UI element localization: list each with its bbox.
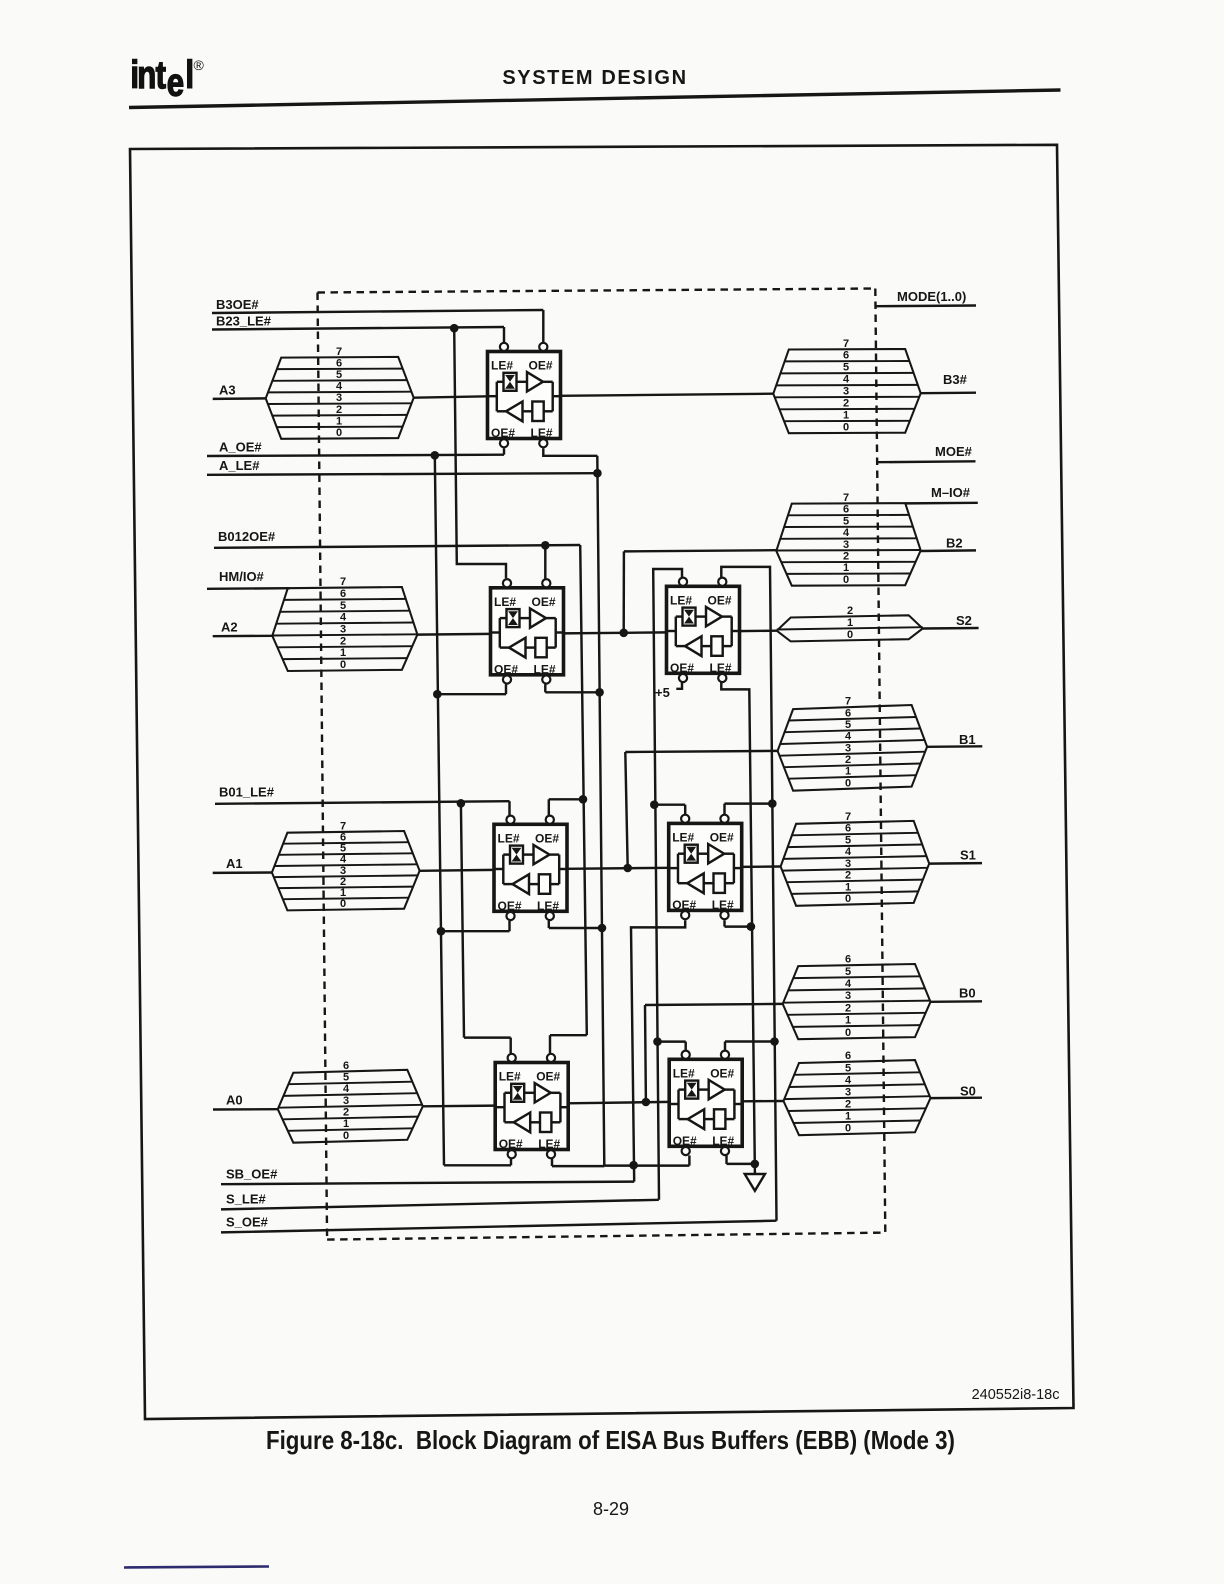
A3 bit line 5 xyxy=(272,379,407,382)
svg-text:6: 6 xyxy=(845,707,851,719)
svg-text:0: 0 xyxy=(340,898,346,910)
bus expander S0 xyxy=(784,1050,931,1135)
wire U1 OE#-bottom riser xyxy=(503,448,505,455)
svg-text:2: 2 xyxy=(340,635,346,647)
svg-text:7: 7 xyxy=(843,492,849,504)
buffer U2 (A2/B2) xyxy=(491,579,564,684)
A1 bit line 6 xyxy=(283,842,408,844)
svg-text:3: 3 xyxy=(343,1095,349,1107)
wire S_LE# to U7 LE#-top xyxy=(658,1040,686,1042)
junction A_LE#/U2 xyxy=(595,688,604,697)
bus expander B0 xyxy=(783,954,931,1039)
wire B012OE# line xyxy=(214,545,580,548)
svg-text:HM/IO#: HM/IO# xyxy=(219,569,265,584)
B2 bit line 6 xyxy=(788,514,909,516)
wire B23_LE# riser to U1 LE# xyxy=(503,327,505,343)
B1 bit line 6 xyxy=(789,717,916,721)
S0 bit line 2 xyxy=(788,1108,926,1111)
wire A2 to U2 xyxy=(417,633,490,636)
wire M-IO# line (bit7 extension) xyxy=(906,502,978,505)
S1 bit line 2 xyxy=(787,880,923,883)
wire B01_LE# vertical net xyxy=(461,803,464,1037)
junction S_LE#/U7 xyxy=(653,1037,662,1046)
wire B3OE# riser to U1 OE# xyxy=(542,310,544,343)
bus expander S2 outline xyxy=(777,615,923,641)
A0 bit line 4 xyxy=(283,1093,417,1096)
svg-text:1: 1 xyxy=(845,1015,851,1027)
svg-text:0: 0 xyxy=(340,659,346,671)
svg-text:4: 4 xyxy=(340,612,347,624)
svg-text:5: 5 xyxy=(343,1072,349,1084)
svg-text:A3: A3 xyxy=(219,383,236,398)
A3 bit line 2 xyxy=(272,414,407,417)
svg-text:0: 0 xyxy=(845,893,851,905)
svg-text:6: 6 xyxy=(845,1050,851,1062)
svg-text:1: 1 xyxy=(845,766,851,778)
wire MOE# line xyxy=(877,460,976,463)
dashed EBB boundary top edge xyxy=(318,289,876,293)
A3 bit line 3 xyxy=(268,402,412,405)
wire A_LE# to U6 LE#-bottom xyxy=(552,1165,604,1167)
junction gnd/U5 xyxy=(747,922,756,931)
dashed EBB boundary bottom edge xyxy=(327,1233,885,1240)
wire B01_LE# riser to U4 LE# xyxy=(508,801,510,815)
svg-text:5: 5 xyxy=(340,600,346,612)
svg-text:A2: A2 xyxy=(221,620,238,635)
wire ground net (U3/U5/U7 LE#-bottom) xyxy=(721,683,755,1175)
svg-text:7: 7 xyxy=(336,346,342,358)
svg-text:7: 7 xyxy=(845,696,851,708)
junction SB_OE#/U7 xyxy=(629,1161,638,1170)
junction A_OE# vertical tap xyxy=(431,451,440,460)
wire U1 to B3 expander xyxy=(560,394,773,396)
svg-text:M–IO#: M–IO# xyxy=(931,485,971,500)
svg-text:1: 1 xyxy=(845,881,851,893)
B3 bit line 3 xyxy=(775,396,920,399)
junction B1 tap xyxy=(623,864,632,873)
svg-text:SB_OE#: SB_OE# xyxy=(226,1167,278,1182)
wire B3 expander to B3# xyxy=(921,392,922,394)
wire S_OE# to U7 OE#-top xyxy=(725,1040,775,1042)
B3 bit line 6 xyxy=(785,360,910,362)
wire S_OE# net (U3/U5/U7 OE#-top) xyxy=(721,567,776,1221)
svg-text:6: 6 xyxy=(336,357,342,369)
A2 bit line 4 xyxy=(276,623,413,624)
wire A2 lead-in xyxy=(213,635,273,638)
A1 bit line 5 xyxy=(279,853,413,855)
B2 bit line 4 xyxy=(780,537,916,540)
svg-text:5: 5 xyxy=(845,719,851,731)
wire U4 to U5 xyxy=(566,868,670,869)
svg-text:1: 1 xyxy=(340,647,346,659)
B1 bit line 5 xyxy=(785,729,921,733)
junction S_OE#/U7 xyxy=(770,1037,779,1046)
svg-text:4: 4 xyxy=(845,846,852,858)
wire B012OE# to U4 OE#-top xyxy=(549,798,583,800)
B3 bit line 5 xyxy=(780,372,913,375)
svg-text:6: 6 xyxy=(340,588,346,600)
S1 bit line 5 xyxy=(788,845,923,848)
A3 bit line 6 xyxy=(277,368,403,371)
wire A1 lead-in xyxy=(213,871,272,874)
S1 bit line 6 xyxy=(792,833,918,836)
wire S_LE# to U5 LE#-top xyxy=(654,803,685,805)
B3 bit line 2 xyxy=(779,408,914,411)
S0 bit line 1 xyxy=(794,1121,921,1124)
wire A_OE# to U6 OE#-bottom xyxy=(444,1164,511,1166)
buffer U3 (B2/S2) xyxy=(667,578,740,683)
svg-text:2: 2 xyxy=(843,551,849,563)
wire A_LE# line xyxy=(207,473,597,475)
wire HM/IO# line xyxy=(207,587,290,590)
svg-text:7: 7 xyxy=(843,338,849,350)
wire U5 to S1 expander xyxy=(741,865,781,868)
A1 bit line 1 xyxy=(283,898,409,900)
bus expander A0 outline xyxy=(278,1070,423,1143)
svg-text:1: 1 xyxy=(843,410,849,422)
svg-text:1: 1 xyxy=(336,415,342,427)
buffer U7 (B0/S0) xyxy=(669,1051,742,1156)
A2 bit line 3 xyxy=(272,634,417,635)
svg-text:7: 7 xyxy=(845,811,851,823)
buffer U1 (A3/B3) xyxy=(488,343,561,448)
svg-text:S1: S1 xyxy=(960,848,976,863)
svg-text:t: t xyxy=(156,54,167,97)
wire SB_OE# line xyxy=(221,1182,634,1185)
svg-text:5: 5 xyxy=(843,515,849,527)
B3 bit line 1 xyxy=(784,420,910,422)
svg-text:4: 4 xyxy=(343,1083,350,1095)
wire U3 to S2 expander xyxy=(738,629,777,632)
junction A_OE#/U4 xyxy=(437,927,446,936)
svg-text:2: 2 xyxy=(843,398,849,410)
bus expander B2 xyxy=(776,492,920,586)
svg-text:0: 0 xyxy=(847,629,853,641)
S1 bit line 4 xyxy=(783,856,926,859)
svg-text:3: 3 xyxy=(845,1086,851,1098)
svg-text:6: 6 xyxy=(845,954,851,966)
svg-text:2: 2 xyxy=(336,404,342,416)
wire MODE line xyxy=(876,304,976,307)
bus expander S2 xyxy=(777,605,923,642)
svg-text:4: 4 xyxy=(843,374,850,386)
svg-text:1: 1 xyxy=(847,617,853,629)
bus expander S1 outline xyxy=(781,821,930,906)
svg-text:S_OE#: S_OE# xyxy=(226,1215,269,1230)
B3 bit line 4 xyxy=(776,384,918,387)
svg-text:SYSTEM DESIGN: SYSTEM DESIGN xyxy=(502,67,687,89)
svg-text:B2: B2 xyxy=(946,536,963,551)
A2 bit line 5 xyxy=(280,611,410,612)
A0 bit line 3 xyxy=(278,1105,423,1108)
svg-text:6: 6 xyxy=(845,823,851,835)
svg-text:0: 0 xyxy=(843,574,849,586)
wire S1 line xyxy=(929,862,982,865)
svg-text:1: 1 xyxy=(343,1118,349,1130)
wire B2 horizontal to expander xyxy=(624,550,776,551)
svg-text:S0: S0 xyxy=(960,1084,976,1099)
junction B2 tap xyxy=(619,629,628,638)
svg-text:0: 0 xyxy=(845,1122,851,1134)
svg-text:e: e xyxy=(167,61,184,104)
svg-text:3: 3 xyxy=(843,386,849,398)
junction A_LE#/U4 xyxy=(598,924,607,933)
wire A_OE# to U4 OE#-bottom xyxy=(441,930,510,932)
wire B2 vertical tap xyxy=(622,551,625,632)
wire A3 lead-in xyxy=(213,397,266,400)
wire B23_LE# drop to U2 LE# xyxy=(454,328,506,578)
wire A_LE# vertical net xyxy=(597,456,604,1166)
S1 bit line 3 xyxy=(782,868,927,871)
S2 bit line 1 xyxy=(777,627,923,629)
dashed EBB boundary left edge xyxy=(318,293,328,1240)
S0 bit line 5 xyxy=(794,1072,920,1075)
ground symbol xyxy=(745,1174,765,1191)
B0 bit line 3 xyxy=(783,1001,931,1003)
wire S_LE# line xyxy=(221,1200,659,1210)
svg-text:6: 6 xyxy=(843,350,849,362)
svg-text:6: 6 xyxy=(343,1060,349,1072)
bus expander B1 outline xyxy=(778,705,928,791)
wire B012OE# to U2 OE#-top xyxy=(544,545,546,578)
wire S_OE# to U5 OE#-top xyxy=(725,802,773,804)
B2 bit line 5 xyxy=(784,526,913,528)
svg-text:2: 2 xyxy=(845,1002,851,1014)
A0 bit line 2 xyxy=(283,1117,419,1120)
svg-text:®: ® xyxy=(194,57,205,73)
bus expander B1 xyxy=(778,696,928,791)
bus expander B3 xyxy=(773,338,920,434)
bottom margin artifact line xyxy=(124,1567,269,1568)
junction A_LE# vertical tap xyxy=(593,469,602,478)
junction B012OE#/U4 xyxy=(579,795,588,804)
svg-text:2: 2 xyxy=(845,754,851,766)
B2 bit line 3 xyxy=(776,549,920,552)
svg-text:6: 6 xyxy=(843,504,849,516)
svg-text:4: 4 xyxy=(845,1074,852,1086)
B0 bit line 5 xyxy=(793,976,920,978)
svg-text:0: 0 xyxy=(845,1027,851,1039)
dashed EBB boundary right edge xyxy=(875,289,885,1233)
svg-text:MODE(1..0): MODE(1..0) xyxy=(897,289,966,304)
A3 bit line 4 xyxy=(268,391,411,394)
wire S0 line xyxy=(931,1096,983,1099)
svg-text:4: 4 xyxy=(336,381,343,393)
wire B2 line xyxy=(921,549,976,552)
wire gnd to U5 LE#-bottom xyxy=(725,925,751,927)
wire A_OE# line xyxy=(207,455,504,456)
wire B0 line xyxy=(931,1000,983,1003)
buffer U5 (B1/S1) xyxy=(669,815,742,920)
wire S_LE# net (U3/U5/U7 LE#-top) xyxy=(653,569,682,1200)
wire B012OE# to U6 OE#-top xyxy=(550,1034,587,1036)
junction B01_LE# vertical tap xyxy=(457,799,466,808)
intel logo xyxy=(130,54,204,105)
bus expander B3 outline xyxy=(773,349,920,433)
A1 bit line 3 xyxy=(274,875,418,877)
junction B0 tap xyxy=(642,1098,651,1107)
A2 bit line 2 xyxy=(277,646,412,647)
svg-text:B012OE#: B012OE# xyxy=(218,529,276,544)
bus expander A2 xyxy=(272,576,417,671)
svg-text:B01_LE#: B01_LE# xyxy=(219,785,275,800)
svg-text:A_OE#: A_OE# xyxy=(219,440,262,455)
svg-text:3: 3 xyxy=(336,392,342,404)
figure caption xyxy=(266,1427,955,1456)
wire B0 horizontal to expander xyxy=(645,1004,783,1005)
svg-text:5: 5 xyxy=(845,834,851,846)
junction gnd/U7 xyxy=(751,1160,760,1169)
B0 bit line 1 xyxy=(793,1025,920,1027)
wire B23_LE# line xyxy=(212,327,504,330)
wire U7 to S0 expander xyxy=(742,1100,783,1103)
svg-text:0: 0 xyxy=(343,1130,349,1142)
A1 bit line 2 xyxy=(278,887,413,889)
wire A0 lead-in xyxy=(213,1108,278,1111)
svg-text:B3#: B3# xyxy=(943,372,968,387)
svg-text:A0: A0 xyxy=(226,1093,243,1108)
wire gnd to U7 LE#-bottom xyxy=(727,1163,755,1165)
buffer U4 (A1/B1) xyxy=(494,816,567,921)
svg-text:4: 4 xyxy=(845,978,852,990)
svg-text:3: 3 xyxy=(845,858,851,870)
B1 bit line 2 xyxy=(784,764,921,768)
bus expander A3 xyxy=(266,346,414,439)
svg-text:S2: S2 xyxy=(956,613,972,628)
bus expander A0 xyxy=(278,1060,423,1143)
svg-text:S_LE#: S_LE# xyxy=(226,1192,267,1207)
wire A1 to U4 xyxy=(420,869,494,872)
svg-text:B3OE#: B3OE# xyxy=(216,297,259,312)
S0 bit line 3 xyxy=(784,1096,931,1099)
wire A_OE# vertical net xyxy=(435,455,444,1165)
A0 bit line 1 xyxy=(288,1128,413,1131)
wire S2 line xyxy=(923,627,979,630)
bus expander S1 xyxy=(781,811,930,906)
bus expander B2 outline xyxy=(776,503,920,586)
B2 bit line 2 xyxy=(781,561,915,563)
svg-text:7: 7 xyxy=(340,576,346,588)
bus expander A3 outline xyxy=(266,357,414,439)
svg-text:3: 3 xyxy=(843,539,849,551)
wire A_LE# to U4 LE#-bottom xyxy=(549,927,602,929)
junction B23_LE#/U2 drop xyxy=(450,324,459,333)
wire B01_LE# to U6 LE#-top xyxy=(464,1036,511,1038)
B1 bit line 1 xyxy=(789,775,917,779)
svg-text:5: 5 xyxy=(845,1062,851,1074)
svg-text:MOE#: MOE# xyxy=(935,444,973,459)
A2 bit line 6 xyxy=(284,599,406,600)
header rule xyxy=(129,90,1061,108)
junction A_OE#/U2 xyxy=(433,690,442,699)
buffer U6 (A0/B0) xyxy=(495,1054,568,1159)
svg-text:2: 2 xyxy=(343,1107,349,1119)
wire U1 LE#-bottom loop xyxy=(543,448,597,456)
wire A_LE# to U2 LE#-bottom xyxy=(545,691,599,693)
B0 bit line 2 xyxy=(788,1013,926,1015)
wire SB_OE# to U7 OE#-bottom xyxy=(604,1164,689,1166)
svg-text:3: 3 xyxy=(340,623,346,635)
svg-text:0: 0 xyxy=(845,777,851,789)
A1 bit line 4 xyxy=(274,864,417,866)
svg-text:5: 5 xyxy=(336,369,342,381)
wire B012OE# vertical net xyxy=(580,545,587,1035)
bus expander A1 xyxy=(272,820,420,910)
wire U6 to U7 xyxy=(567,1102,670,1103)
A3 bit line 1 xyxy=(277,426,403,429)
wire B1 vertical tap xyxy=(625,752,627,868)
svg-text:4: 4 xyxy=(843,527,850,539)
svg-text:2: 2 xyxy=(847,605,853,617)
svg-text:B0: B0 xyxy=(959,986,976,1001)
wire B1 horizontal to expander xyxy=(625,751,777,752)
bus expander A1 outline xyxy=(272,831,420,910)
svg-text:n: n xyxy=(137,54,156,97)
svg-text:+5: +5 xyxy=(655,685,670,700)
svg-text:1: 1 xyxy=(845,1110,851,1122)
wire S_OE# line xyxy=(221,1221,777,1233)
svg-text:5: 5 xyxy=(845,966,851,978)
junction S_LE#/U5 xyxy=(650,800,659,809)
wire B3OE# line xyxy=(212,310,543,313)
svg-text:0: 0 xyxy=(843,422,849,434)
svg-text:0: 0 xyxy=(336,427,342,439)
wire B1 line xyxy=(927,745,982,748)
wire +5 stub to U3 OE#-bottom xyxy=(676,683,682,689)
svg-text:3: 3 xyxy=(845,742,851,754)
A2 bit line 1 xyxy=(283,658,408,659)
wire A3 to U1 xyxy=(414,396,488,397)
wire SB_OE# net (U5/U7 OE#-bottom) xyxy=(631,920,685,1181)
wire U2 to U3 xyxy=(562,632,667,633)
S1 bit line 1 xyxy=(792,891,919,894)
wire B01_LE# line xyxy=(215,801,510,804)
svg-text:B23_LE#: B23_LE# xyxy=(216,314,272,329)
junction B012OE#/U2 xyxy=(541,541,550,550)
wire B3# line xyxy=(921,391,976,394)
figure frame border xyxy=(130,145,1074,1419)
A0 bit line 5 xyxy=(288,1082,412,1085)
svg-text:A_LE#: A_LE# xyxy=(219,458,260,473)
svg-text:2: 2 xyxy=(845,870,851,882)
bus expander B0 outline xyxy=(783,964,931,1039)
svg-text:B1: B1 xyxy=(959,732,976,747)
svg-text:Figure 8-18c. Block Diagram o: Figure 8-18c. Block Diagram of EISA Bus … xyxy=(266,1427,955,1456)
wire A_OE# to U2 OE#-bottom xyxy=(437,693,506,695)
B0 bit line 4 xyxy=(788,988,925,990)
bus expander A2 outline xyxy=(272,587,417,671)
B2 bit line 1 xyxy=(787,573,911,575)
svg-text:2: 2 xyxy=(845,1098,851,1110)
junction S_OE#/U5 xyxy=(768,799,777,808)
B1 bit line 4 xyxy=(780,740,925,744)
B1 bit line 3 xyxy=(780,752,926,756)
svg-text:4: 4 xyxy=(845,731,852,743)
wire A0 to U6 xyxy=(423,1104,495,1107)
svg-text:1: 1 xyxy=(843,562,849,574)
bus expander S0 outline xyxy=(784,1060,931,1135)
svg-text:3: 3 xyxy=(845,990,851,1002)
svg-text:240552i8-18c: 240552i8-18c xyxy=(972,1387,1060,1403)
S0 bit line 4 xyxy=(789,1084,925,1087)
wire B0 vertical tap xyxy=(644,1005,647,1102)
svg-text:8-29: 8-29 xyxy=(593,1499,629,1519)
svg-text:A1: A1 xyxy=(226,856,243,871)
svg-text:5: 5 xyxy=(843,362,849,374)
